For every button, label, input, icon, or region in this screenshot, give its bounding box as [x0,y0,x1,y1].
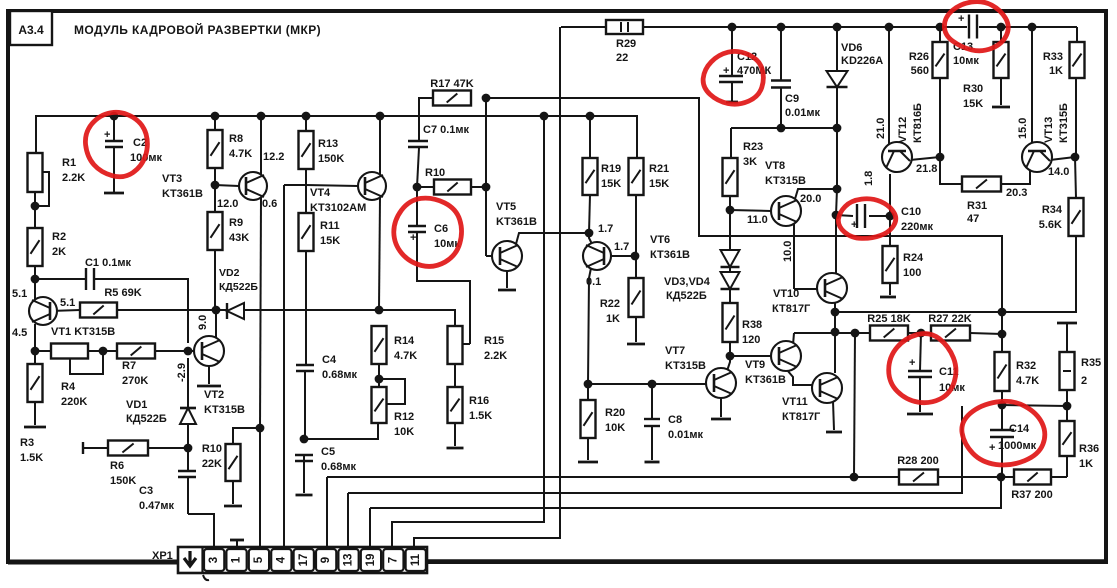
svg-text:R8: R8 [229,133,243,145]
svg-text:R20: R20 [605,407,625,419]
svg-text:R1: R1 [62,157,76,169]
svg-text:R32: R32 [1016,360,1036,372]
svg-text:0.68мк: 0.68мк [321,461,357,473]
svg-text:20.3: 20.3 [1006,187,1027,199]
svg-text:KT315В: KT315В [765,175,806,187]
svg-text:C1 0.1мк: C1 0.1мк [85,257,132,269]
svg-text:C7 0.1мк: C7 0.1мк [423,124,470,136]
svg-text:11.0: 11.0 [747,214,768,226]
svg-text:R14: R14 [394,335,415,347]
svg-text:22: 22 [616,52,628,64]
svg-text:20.0: 20.0 [800,193,821,205]
svg-text:КД522Б: КД522Б [666,290,707,302]
svg-text:-2.9: -2.9 [176,363,188,382]
svg-text:KD226A: KD226A [841,55,883,67]
svg-text:4: 4 [275,556,287,563]
svg-text:15K: 15K [649,178,669,190]
svg-text:VD1: VD1 [126,399,147,411]
svg-text:VT7: VT7 [665,345,685,357]
svg-text:C4: C4 [322,354,337,366]
svg-text:+: + [104,129,110,141]
svg-text:R28 200: R28 200 [897,455,939,467]
svg-text:+: + [410,232,416,244]
svg-text:XP1: XP1 [152,550,173,562]
svg-text:4.7K: 4.7K [1016,375,1039,387]
svg-text:22K: 22K [202,458,222,470]
svg-text:VD3,VD4: VD3,VD4 [664,276,711,288]
svg-text:VT6: VT6 [650,234,670,246]
svg-text:КТ361В: КТ361В [650,249,690,261]
svg-text:C8: C8 [668,414,682,426]
svg-text:+: + [958,13,964,25]
svg-text:КД522Б: КД522Б [219,281,258,293]
svg-text:R13: R13 [318,138,338,150]
svg-text:1.8: 1.8 [863,171,875,186]
svg-text:МОДУЛЬ КАДРОВОЙ РАЗВЕРТКИ (МКР: МОДУЛЬ КАДРОВОЙ РАЗВЕРТКИ (МКР) [74,22,321,37]
svg-text:R4: R4 [61,381,76,393]
svg-text:R30: R30 [963,83,983,95]
svg-text:R9: R9 [229,217,243,229]
svg-text:0.47мк: 0.47мк [139,500,175,512]
svg-text:120: 120 [742,334,760,346]
svg-text:9: 9 [320,557,332,563]
svg-text:5.1: 5.1 [12,288,27,300]
svg-text:10мк: 10мк [953,55,979,67]
svg-text:VT4: VT4 [310,187,331,199]
svg-text:15K: 15K [601,178,621,190]
svg-text:270K: 270K [122,375,148,387]
svg-text:4.5: 4.5 [12,327,27,339]
svg-text:1K: 1K [606,313,620,325]
svg-text:R21: R21 [649,163,669,175]
svg-text:КД522Б: КД522Б [126,413,167,425]
svg-text:R33: R33 [1043,51,1063,63]
svg-text:VT11: VT11 [782,396,808,408]
svg-text:+: + [909,357,915,369]
svg-text:14.0: 14.0 [1048,166,1069,178]
svg-text:560: 560 [911,65,929,77]
svg-text:R12: R12 [394,411,414,423]
svg-text:150K: 150K [318,153,344,165]
svg-text:3K: 3K [743,156,757,168]
svg-text:R11: R11 [320,220,340,232]
svg-text:4.7K: 4.7K [394,350,417,362]
svg-text:R36: R36 [1079,443,1099,455]
svg-text:KT315В: KT315В [665,360,706,372]
svg-text:5.1: 5.1 [60,297,75,309]
svg-text:КТ315Б: КТ315Б [1058,103,1070,143]
svg-text:C9: C9 [785,93,799,105]
svg-text:R15: R15 [484,335,504,347]
svg-text:0.68мк: 0.68мк [322,369,358,381]
svg-text:A3.4: A3.4 [18,23,44,37]
svg-text:470МК: 470МК [737,65,772,77]
svg-text:21.8: 21.8 [916,163,937,175]
svg-text:C6: C6 [434,223,448,235]
svg-text:150K: 150K [110,475,136,487]
svg-text:R26: R26 [909,51,929,63]
svg-text:R16: R16 [469,395,489,407]
svg-text:C5: C5 [321,446,335,458]
svg-text:R5 69K: R5 69K [104,287,141,299]
svg-text:R24: R24 [903,252,924,264]
svg-text:C14: C14 [1009,423,1030,435]
svg-text:VT2: VT2 [204,389,224,401]
svg-text:1000мк: 1000мк [998,440,1037,452]
svg-text:VT3: VT3 [162,173,182,185]
svg-text:КТ816Б: КТ816Б [912,103,924,143]
svg-text:R7: R7 [122,360,136,372]
svg-text:0.01мк: 0.01мк [668,429,704,441]
svg-text:2K: 2K [52,246,66,258]
svg-text:R22: R22 [600,298,620,310]
svg-text:R3: R3 [20,437,34,449]
svg-text:21.0: 21.0 [875,118,887,139]
svg-text:R17 47K: R17 47K [430,78,473,90]
svg-text:0.1: 0.1 [586,276,601,288]
svg-text:R38: R38 [742,319,762,331]
svg-text:R19: R19 [601,163,621,175]
svg-text:1.5K: 1.5K [20,452,43,464]
svg-text:1.5K: 1.5K [469,410,492,422]
svg-text:9.0: 9.0 [197,315,209,330]
svg-text:19: 19 [365,554,377,567]
svg-text:10K: 10K [394,426,414,438]
svg-text:R23: R23 [743,141,763,153]
svg-text:5.6K: 5.6K [1039,219,1062,231]
svg-text:7: 7 [387,557,399,563]
svg-text:15K: 15K [963,98,983,110]
svg-text:R35: R35 [1081,357,1101,369]
svg-text:КТ817Г: КТ817Г [782,411,821,423]
svg-text:2: 2 [1081,375,1087,387]
svg-text:+: + [851,219,857,231]
svg-text:2.2K: 2.2K [62,172,85,184]
svg-text:C3: C3 [139,485,153,497]
svg-text:KT3102AM: KT3102AM [310,202,366,214]
svg-text:KT361В: KT361В [162,188,203,200]
svg-text:5: 5 [253,556,265,563]
svg-text:2.2K: 2.2K [484,350,507,362]
svg-text:10.0: 10.0 [782,241,794,262]
svg-text:+: + [723,65,729,77]
svg-text:10K: 10K [605,422,625,434]
svg-text:15.0: 15.0 [1017,118,1029,139]
svg-text:VT1 KT315В: VT1 KT315В [51,326,115,338]
svg-text:47: 47 [967,213,979,225]
svg-text:R2: R2 [52,231,66,243]
svg-text:R37 200: R37 200 [1011,489,1053,501]
svg-text:VT9: VT9 [745,359,765,371]
svg-text:220мк: 220мк [901,221,933,233]
svg-text:12.2: 12.2 [263,151,284,163]
svg-text:VD2: VD2 [219,267,240,279]
svg-text:17: 17 [298,554,310,567]
svg-text:R27 22K: R27 22K [928,313,971,325]
svg-text:R29: R29 [616,38,636,50]
svg-text:KT315В: KT315В [204,404,245,416]
svg-text:15K: 15K [320,235,340,247]
svg-text:43K: 43K [229,232,249,244]
svg-text:VT12: VT12 [897,117,909,143]
svg-text:13: 13 [343,554,355,567]
svg-text:KT361В: KT361В [496,216,537,228]
svg-text:VT8: VT8 [765,160,785,172]
svg-text:0.01мк: 0.01мк [785,107,821,119]
svg-text:VT13: VT13 [1043,117,1055,143]
svg-text:R6: R6 [110,460,124,472]
svg-text:VD6: VD6 [841,42,862,54]
svg-text:0.6: 0.6 [262,198,277,210]
svg-text:C10: C10 [901,206,921,218]
svg-text:КТ817Г: КТ817Г [772,303,811,315]
svg-text:11: 11 [410,553,422,566]
svg-text:VT5: VT5 [496,201,516,213]
svg-text:3: 3 [208,557,220,563]
svg-text:100: 100 [903,267,921,279]
svg-text:1.7: 1.7 [598,223,613,235]
svg-text:R10: R10 [202,443,222,455]
svg-text:220K: 220K [61,396,87,408]
svg-text:1.7: 1.7 [614,241,629,253]
svg-text:+: + [989,442,995,454]
svg-text:1: 1 [231,556,243,563]
svg-text:4.7K: 4.7K [229,148,252,160]
svg-text:1K: 1K [1049,65,1063,77]
svg-text:R34: R34 [1042,204,1063,216]
svg-text:VT10: VT10 [773,288,799,300]
svg-text:1K: 1K [1079,458,1093,470]
svg-text:R25 18K: R25 18K [867,313,910,325]
svg-text:R31: R31 [967,200,987,212]
svg-text:12.0: 12.0 [217,198,238,210]
svg-text:KT361В: KT361В [745,374,786,386]
svg-text:R10: R10 [425,167,445,179]
